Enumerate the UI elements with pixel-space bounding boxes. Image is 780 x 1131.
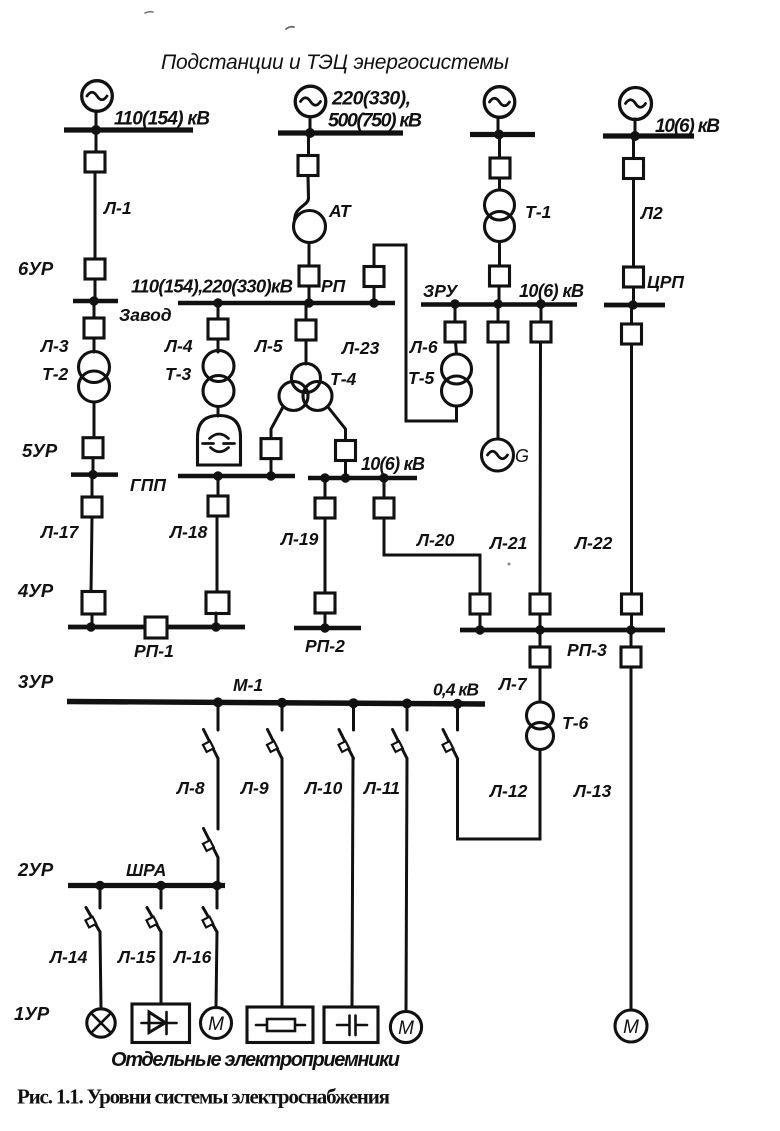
bus РП-2 (294, 626, 361, 631)
svg-text:G: G (515, 446, 529, 466)
svg-text:М: М (398, 1018, 414, 1039)
wire (498, 242, 501, 267)
bus 220-500 кВ (278, 130, 403, 135)
breaker Л-4 (208, 319, 228, 339)
breaker Т-4 right (336, 441, 356, 461)
node (475, 625, 484, 634)
wire Л-23 loop (374, 245, 457, 421)
breaker Т-1 upper (490, 158, 510, 178)
motor М Л-11 (390, 1011, 421, 1042)
breaker 4УР left (82, 592, 105, 615)
wire (383, 478, 386, 498)
wire (632, 287, 635, 305)
switch Л-8 lower (203, 829, 218, 858)
transformer Т-6 (527, 702, 554, 729)
wire (93, 301, 96, 318)
wire (91, 475, 94, 497)
svg-text:110(154),220(330)кВ: 110(154),220(330)кВ (131, 276, 293, 297)
bus ГПП (178, 474, 295, 479)
svg-text:Л-12: Л-12 (488, 781, 528, 801)
wire (540, 304, 543, 322)
node (277, 698, 287, 708)
node (213, 298, 222, 307)
lamp (87, 1009, 115, 1037)
wire Л-23 (373, 287, 376, 304)
breaker Л-3 (84, 318, 104, 338)
svg-text:Л-17: Л-17 (39, 522, 80, 542)
transformer Т-5 (442, 354, 472, 384)
wire (91, 614, 94, 627)
switch Л-15 (146, 886, 161, 933)
switch Л-14 (85, 886, 100, 933)
svg-text:0,4 кВ: 0,4 кВ (433, 680, 479, 700)
breaker Л-18 (208, 496, 228, 516)
wire (324, 478, 327, 498)
svg-text:Л2: Л2 (639, 203, 663, 223)
breaker Л-6 (445, 322, 465, 342)
wire (92, 458, 95, 475)
svg-text:Т-4: Т-4 (330, 369, 357, 389)
wire Л-11 (406, 759, 407, 1012)
wire (344, 461, 347, 479)
wire Л-1 (94, 172, 97, 259)
svg-text:Л-18: Л-18 (168, 522, 208, 542)
breaker АТ (298, 156, 318, 176)
breaker РП-2 (315, 593, 335, 613)
wire (217, 858, 220, 886)
wire Л-13 (630, 667, 633, 1010)
svg-text:Л-15: Л-15 (116, 947, 156, 967)
node (156, 881, 165, 890)
breaker Т-4 left (261, 439, 281, 459)
node (91, 125, 101, 135)
wire (539, 667, 542, 702)
wire Л-9 (281, 759, 284, 1008)
wire (456, 342, 457, 354)
breaker 4УР mid (206, 592, 229, 614)
wire (95, 130, 98, 152)
wire (497, 304, 500, 322)
autotransformer АТ (295, 176, 309, 221)
resistive load box (247, 1007, 313, 1043)
node (304, 298, 313, 307)
wire (95, 111, 98, 130)
node (536, 299, 545, 308)
wire Л-17 (91, 517, 92, 594)
svg-text:Л-7: Л-7 (497, 674, 528, 694)
svg-text:10(6) кВ: 10(6) кВ (361, 454, 425, 474)
svg-text:Т-5: Т-5 (408, 368, 435, 388)
svg-text:РП-3: РП-3 (567, 640, 607, 660)
bus М-1 0,4 кВ (67, 702, 485, 705)
generator source 1 (82, 81, 113, 112)
node (266, 471, 275, 480)
bus 110(154) кВ (64, 127, 193, 132)
transformer Т-3 (203, 351, 234, 382)
wire (497, 117, 500, 135)
svg-text:Л-5: Л-5 (253, 336, 283, 356)
svg-text:Л-13: Л-13 (572, 781, 612, 801)
svg-text:РП-1: РП-1 (134, 641, 174, 661)
wire (308, 243, 311, 267)
node (95, 881, 104, 890)
motor М right (615, 1010, 647, 1042)
bus РП (178, 301, 395, 306)
wire Л2 (632, 179, 635, 268)
node (213, 471, 222, 480)
wire Л-10 (352, 759, 353, 1008)
wire (498, 135, 501, 159)
bus 5УР (71, 472, 118, 477)
node (453, 699, 463, 709)
bus ШРА (68, 883, 225, 888)
wire (93, 402, 96, 438)
wire (305, 340, 308, 364)
wire Л-12 loop (458, 750, 541, 840)
bus ЦРП (604, 303, 665, 308)
wire (497, 342, 500, 439)
svg-text:РП: РП (321, 276, 346, 296)
node (494, 130, 504, 140)
breaker РП-1 (145, 617, 167, 638)
svg-text:Л-23: Л-23 (340, 338, 380, 358)
node (341, 473, 350, 482)
wire (94, 279, 97, 301)
svg-text:Л-9: Л-9 (239, 778, 269, 798)
svg-text:5УР: 5УР (22, 440, 58, 461)
speck artifact (508, 563, 511, 566)
node (626, 625, 635, 634)
wire Л-18 (216, 516, 219, 593)
svg-text:ШРА: ШРА (126, 860, 166, 880)
breaker ЦРП (624, 267, 644, 287)
switch Л-16 (202, 886, 217, 933)
node (630, 131, 640, 141)
svg-text:Л-1: Л-1 (102, 198, 132, 218)
svg-text:М: М (208, 1014, 224, 1035)
node (379, 473, 388, 482)
wire (270, 459, 273, 476)
wire Л-8 (217, 759, 220, 830)
transformer Т-4 three-winding (292, 364, 321, 393)
breaker Л-7 (530, 647, 550, 667)
bus source 4 (603, 133, 694, 138)
svg-text:Л-21: Л-21 (488, 533, 527, 553)
wire Л-16 (216, 932, 217, 1008)
wire (630, 630, 633, 647)
wire (307, 133, 310, 156)
wire (215, 613, 218, 627)
breaker 5УР (83, 438, 103, 458)
svg-text:Рис. 1.1. Уровни системы элект: Рис. 1.1. Уровни системы электроснабжени… (17, 1085, 390, 1109)
svg-text:220(330),: 220(330), (331, 88, 411, 110)
wire (309, 117, 312, 133)
node (88, 470, 97, 479)
svg-text:АТ: АТ (328, 201, 352, 221)
breaker Л-22 lower (622, 594, 642, 614)
breaker Л-20 (374, 498, 394, 518)
breaker Л-21 (531, 322, 551, 342)
switch Л-9 (267, 703, 282, 759)
node (450, 299, 459, 308)
svg-text:Л-8: Л-8 (175, 778, 205, 798)
generator G (482, 439, 514, 471)
wire (498, 178, 501, 190)
node (305, 128, 315, 138)
wire (498, 286, 501, 304)
wire (217, 476, 220, 496)
svg-text:Л-14: Л-14 (48, 947, 88, 967)
capacitor load box (324, 1007, 378, 1043)
svg-text:Л-3: Л-3 (39, 336, 69, 356)
wire (324, 613, 327, 628)
wire Т-4 right lead (328, 407, 346, 441)
wire (454, 304, 457, 322)
breaker РП (299, 266, 319, 286)
node (402, 699, 412, 709)
svg-text:М-1: М-1 (233, 675, 263, 695)
svg-text:М: М (623, 1017, 639, 1038)
switch Л-11 (392, 704, 407, 759)
breaker Л-20 lower (470, 594, 490, 614)
svg-text:Отдельные электроприемники: Отдельные электроприемники (111, 1049, 400, 1071)
transformer Т-2 (79, 352, 110, 383)
bus 4УР left (68, 625, 145, 630)
wire (539, 630, 542, 647)
node (212, 881, 221, 890)
breaker G (488, 322, 508, 342)
svg-text:Т-3: Т-3 (165, 364, 192, 384)
node (535, 625, 544, 634)
bus 10(6) кВ ГПП (308, 476, 417, 481)
svg-text:Подстанции и ТЭЦ энергосистемы: Подстанции и ТЭЦ энергосистемы (161, 51, 510, 74)
breaker Л-17 (82, 497, 102, 517)
switch Л-10 (338, 703, 353, 758)
svg-text:Л-6: Л-6 (408, 337, 438, 357)
breaker Л-22 upper (622, 324, 642, 344)
wire Л-15 (160, 932, 163, 1004)
rectifier load (132, 1004, 190, 1043)
breaker Л-5 (296, 320, 316, 340)
breaker Л-1 upper (85, 152, 105, 172)
node (213, 697, 223, 707)
generator source 4 (620, 88, 652, 120)
svg-text:4УР: 4УР (17, 580, 54, 601)
bus Завод (73, 299, 118, 304)
svg-text:110(154) кВ: 110(154) кВ (114, 109, 210, 130)
node (89, 296, 98, 305)
node (86, 622, 95, 631)
breaker Л2 upper (624, 159, 644, 179)
svg-text:Л-11: Л-11 (362, 778, 400, 798)
wire Л-19 (324, 518, 327, 593)
generator source 3 (484, 87, 515, 118)
node (320, 473, 329, 482)
switch Л-12 (442, 704, 457, 759)
wire Л-22 (630, 344, 633, 594)
svg-text:Л-4: Л-4 (163, 336, 193, 356)
svg-text:6УР: 6УР (18, 258, 54, 279)
svg-text:Завод: Завод (119, 305, 172, 325)
svg-text:ГПП: ГПП (130, 475, 166, 495)
transformer Т-1 (485, 190, 515, 220)
breaker Л-1 lower (85, 259, 105, 279)
svg-text:РП-2: РП-2 (305, 636, 345, 656)
svg-text:Т-6: Т-6 (562, 713, 589, 733)
bus РП-3 (460, 628, 665, 633)
node (493, 299, 502, 308)
wire (479, 614, 482, 630)
svg-text:ЦРП: ЦРП (647, 272, 684, 292)
wire (217, 407, 220, 417)
node (628, 300, 637, 309)
bus ЗРУ (421, 302, 577, 307)
wire (217, 339, 220, 352)
svg-text:3УР: 3УР (18, 671, 54, 692)
svg-text:Т-1: Т-1 (525, 202, 551, 222)
bus 4УР right (167, 625, 245, 630)
breaker Л-19 (315, 498, 335, 518)
node (349, 698, 359, 708)
wire (539, 614, 542, 630)
breaker Л-23 (364, 267, 384, 287)
wire (217, 303, 220, 319)
node (369, 298, 378, 307)
wire (634, 119, 637, 136)
breaker Т-1 lower (490, 266, 510, 286)
svg-text:Л-10: Л-10 (303, 778, 343, 798)
speck artifact (145, 12, 153, 13)
svg-text:2УР: 2УР (17, 859, 54, 880)
svg-text:10(6) кВ: 10(6) кВ (519, 281, 584, 301)
wire (308, 286, 311, 303)
wire Л-21 (539, 342, 543, 594)
svg-text:500(750) кВ: 500(750) кВ (328, 110, 422, 132)
svg-text:Л-16: Л-16 (172, 947, 212, 967)
svg-text:Л-22: Л-22 (573, 533, 613, 553)
wire (630, 305, 633, 324)
motor М Л-16 (201, 1008, 232, 1039)
breaker Л-13 (621, 647, 641, 667)
wire (630, 614, 633, 630)
furnace load (198, 416, 241, 466)
bus source 3 (470, 132, 535, 137)
wire Л-14 (100, 932, 101, 1009)
switch Л-8 upper (203, 703, 218, 759)
node (211, 622, 220, 631)
svg-text:Т-2: Т-2 (42, 364, 69, 384)
speck artifact (286, 27, 294, 29)
wire (93, 338, 96, 352)
svg-text:Л-19: Л-19 (279, 529, 319, 549)
wire Л-20 (384, 518, 480, 594)
wire Л-5 (305, 303, 308, 320)
wire (632, 136, 635, 159)
svg-text:Л-20: Л-20 (415, 530, 455, 550)
wire Т-4 left lead (271, 407, 283, 439)
node (320, 623, 329, 632)
generator source 2 (295, 86, 326, 117)
svg-text:ЗРУ: ЗРУ (423, 281, 458, 301)
svg-text:1УР: 1УР (14, 1003, 50, 1024)
breaker Л-21 lower (530, 594, 550, 614)
